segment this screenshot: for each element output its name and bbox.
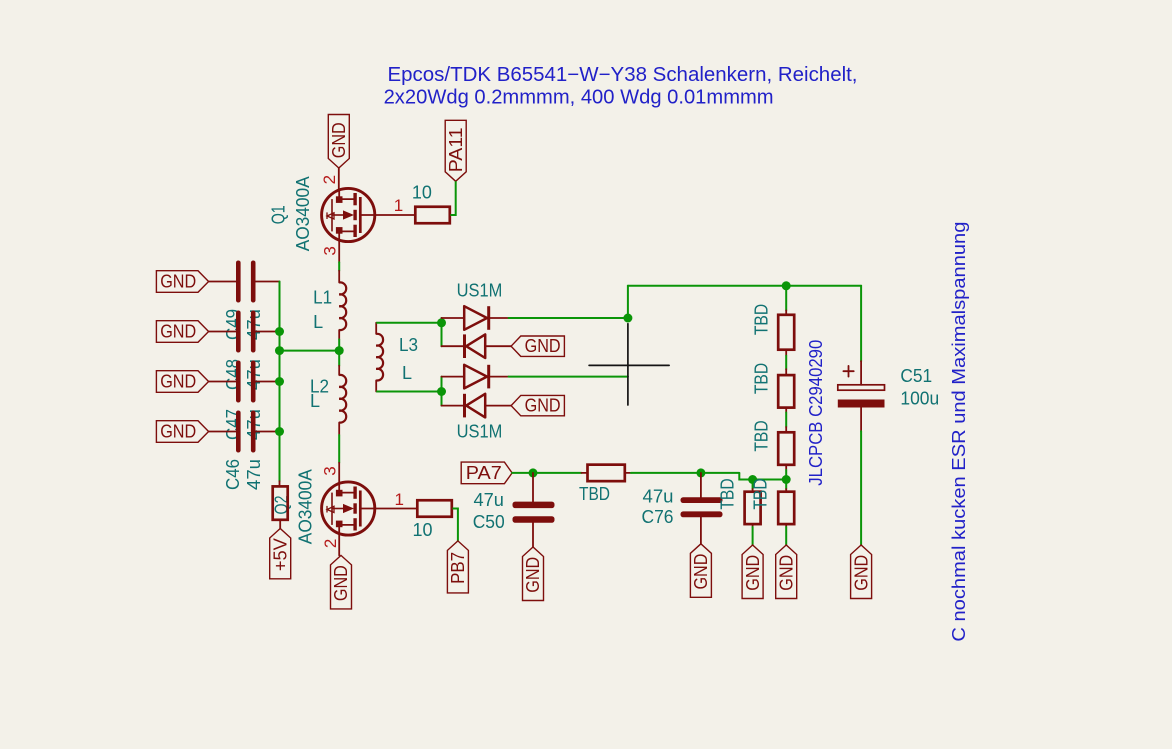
pin bottom of C76 to GND <box>700 517 702 544</box>
wire capacitor bus vertical <box>279 282 281 482</box>
pin 1 of L1 <box>338 271 340 283</box>
pin 2 of L2 <box>338 423 340 436</box>
pin top of C50 <box>532 473 534 502</box>
capacitor C47 47u <box>236 361 241 403</box>
svg-text:L1: L1 <box>313 288 332 308</box>
junction C46 row <box>275 427 284 436</box>
pin top of C76 <box>700 473 702 497</box>
svg-text:TBD: TBD <box>751 478 771 509</box>
pin anode of D1B to GND <box>485 345 511 347</box>
pin 2 of L1 <box>338 330 340 339</box>
pin top of TBD R4 <box>752 489 754 492</box>
power label GND (left 1) <box>156 271 208 293</box>
power label GND (under C50) <box>523 547 544 601</box>
diode D2B US1M <box>466 394 485 418</box>
wire GND to C47 left plate <box>209 381 236 383</box>
resistor TBD (to GND 1) <box>745 492 761 524</box>
hierarchical label PA7 <box>461 462 512 484</box>
power label +5V <box>270 529 291 579</box>
power label GND (under C51) <box>851 545 872 599</box>
wire C51 to GND <box>860 431 862 545</box>
svg-text:47u: 47u <box>474 490 504 510</box>
svg-text:2: 2 <box>321 539 340 548</box>
svg-text:47u: 47u <box>643 487 674 507</box>
wire PA7 to TBD resistor <box>512 472 581 474</box>
pin bottom of C50 to GND <box>532 523 534 547</box>
pin bottom of TBD R5 <box>785 524 787 527</box>
power label GND (above Q1) <box>328 115 349 169</box>
svg-text:GND: GND <box>331 565 351 601</box>
svg-text:C nochmal kucken ESR und Maxim: C nochmal kucken ESR und Maximalspannung <box>949 222 969 642</box>
pin 1 of Q2 (gate) to R <box>360 508 417 510</box>
resistor TBD (chain 2) <box>778 375 794 408</box>
power label GND (under Q2) <box>331 555 352 609</box>
svg-text:TBD: TBD <box>579 484 610 504</box>
pin anode of D1A <box>442 317 465 319</box>
wire node riser <box>627 286 629 318</box>
pin top of chain R2 <box>785 369 787 375</box>
wire GND to C46 left plate <box>209 431 236 433</box>
svg-text:C51: C51 <box>900 366 932 386</box>
pin C49 right plate to bus <box>256 281 280 283</box>
wire between L1 and L2 <box>338 339 340 365</box>
svg-text:L: L <box>313 312 323 332</box>
pin right of TBD resistor <box>625 472 631 474</box>
junction L3 bottom to diodes <box>437 387 446 396</box>
pin 2 of Q2 (source) to GND <box>338 535 340 555</box>
wire Q1 source to L1 <box>338 262 340 271</box>
svg-text:L: L <box>310 391 320 411</box>
junction divider to TBD R4 <box>748 475 757 484</box>
resistor TBD (chain 1) <box>778 315 794 350</box>
transistor Q2 AO3400A (N-MOSFET) <box>322 482 375 535</box>
power label GND (under C76) <box>690 544 711 598</box>
wire top rail <box>628 285 861 287</box>
pin top of TBD R5 <box>785 489 787 492</box>
svg-text:47u: 47u <box>244 459 264 490</box>
svg-text:100u: 100u <box>900 389 939 409</box>
svg-text:GND: GND <box>160 272 196 292</box>
inductor L2 <box>339 375 346 423</box>
junction C76 node <box>696 468 705 477</box>
pin 1 of L2 <box>338 366 340 375</box>
power label GND (left 2) <box>156 321 208 343</box>
capacitor C46 47u <box>236 411 241 453</box>
wire TBD R4 to GND <box>752 527 754 545</box>
svg-text:TBD: TBD <box>751 304 771 335</box>
pin anode of D2A <box>442 376 465 378</box>
svg-text:L: L <box>402 363 412 383</box>
inductor L1 <box>339 282 346 330</box>
pin bottom of chain R2 <box>785 408 787 413</box>
junction L3 top to diodes <box>437 318 446 327</box>
wire bus to L1/L2 junction <box>280 350 340 352</box>
pin left of TBD resistor <box>582 472 588 474</box>
wire D1A cathode to node <box>509 317 628 319</box>
svg-text:GND: GND <box>743 555 763 591</box>
wire D2A cathode to cross <box>509 376 628 378</box>
svg-text:AO3400A: AO3400A <box>293 176 313 251</box>
pin 2 of L3 <box>375 380 377 391</box>
resistor TBD (to GND 2) <box>778 492 794 524</box>
wire chain R2 to R3 <box>785 413 787 428</box>
junction PA7 to C50 <box>529 468 538 477</box>
wire step down to divider node <box>739 473 786 480</box>
wire L3 top elbow <box>376 322 441 324</box>
wire chain R3 to node <box>785 470 787 480</box>
svg-text:GND: GND <box>160 422 196 442</box>
pin bottom of chain R3 <box>785 465 787 470</box>
pin cathode of D1B <box>442 345 465 347</box>
svg-text:1: 1 <box>394 196 403 215</box>
svg-text:3: 3 <box>320 246 339 255</box>
pin anode of D2B to GND <box>485 405 511 407</box>
resistor TBD (PA7 series) <box>588 465 625 482</box>
power label GND (under R5) <box>776 545 797 599</box>
wire GND to C49 left plate <box>209 281 236 283</box>
wire TBD R5 to GND <box>785 527 787 545</box>
capacitor C51 100u (polarized) <box>838 385 885 390</box>
svg-text:3: 3 <box>320 466 339 475</box>
capacitor C76 47u <box>681 497 723 503</box>
diode D1A US1M <box>464 306 487 330</box>
pin C48 right plate to bus <box>256 331 280 333</box>
svg-text:GND: GND <box>691 554 711 590</box>
pin 3 of Q2 (drain) <box>338 463 340 482</box>
junction L1/L2 node <box>335 346 344 355</box>
pin bottom of TBD R4 <box>752 524 754 527</box>
diode D2A US1M <box>464 365 487 389</box>
wire PA11 to gate resistor <box>450 181 455 215</box>
capacitor C49 47u <box>236 261 241 303</box>
wire chain R1 to R2 <box>785 356 787 370</box>
wire anode bus diode pair 2 <box>441 377 443 406</box>
wire / pin 2 of Q1 (drain to GND) <box>338 168 340 189</box>
power label GND (diode pair 2) <box>511 395 564 415</box>
wire top rail to C51 <box>860 286 862 361</box>
diode D1B US1M <box>466 334 485 358</box>
power label GND (under R4) <box>742 545 763 599</box>
svg-text:GND: GND <box>776 555 796 591</box>
junction bus to L wire <box>275 346 284 355</box>
pin 1 of L3 <box>375 323 377 334</box>
pin C46 right plate to bus <box>256 431 280 433</box>
pin cathode of D1A <box>489 317 509 319</box>
junction C48 row <box>275 327 284 336</box>
resistor TBD (chain 3) <box>778 432 794 465</box>
svg-text:1: 1 <box>395 490 404 509</box>
svg-text:GND: GND <box>525 336 561 356</box>
pin top of chain R3 <box>785 427 787 432</box>
svg-text:C46: C46 <box>223 459 243 490</box>
junction top rail to TBD chain <box>782 281 791 290</box>
svg-text:AO3400A: AO3400A <box>295 469 315 544</box>
resistor 10 (Q1 gate) <box>415 207 450 224</box>
svg-text:TBD: TBD <box>751 420 771 451</box>
wire node to TBD R4 <box>752 480 754 490</box>
svg-text:2x20Wdg 0.2mmmm, 400 Wdg 0.01m: 2x20Wdg 0.2mmmm, 400 Wdg 0.01mmmm <box>384 86 774 108</box>
svg-text:10: 10 <box>412 183 432 203</box>
wire GND to C48 left plate <box>209 331 236 333</box>
plus sign of C51 <box>843 370 853 372</box>
svg-text:TBD: TBD <box>751 363 771 394</box>
power label GND (left 3) <box>156 371 208 393</box>
pin positive of C51 <box>860 361 862 385</box>
power label GND (left 4) <box>156 421 208 443</box>
junction divider node <box>782 475 791 484</box>
capacitor C50 47u <box>513 502 555 509</box>
capacitor C48 47u <box>236 311 241 353</box>
svg-text:GND: GND <box>525 396 561 416</box>
wire rail to TBD chain R1 <box>785 286 787 311</box>
wire L2 to Q2 drain <box>338 435 340 463</box>
pin cathode of D2A <box>489 376 509 378</box>
wire anode bus diode pair 1 <box>441 318 443 346</box>
svg-text:PA7: PA7 <box>466 463 502 483</box>
junction rectifier node <box>623 314 632 323</box>
svg-text:PA11: PA11 <box>446 127 466 172</box>
pin cathode of D2B <box>442 405 465 407</box>
svg-text:C76: C76 <box>642 507 674 527</box>
svg-text:GND: GND <box>329 122 349 158</box>
junction C47 row <box>275 377 284 386</box>
svg-text:JLCPCB C2940290: JLCPCB C2940290 <box>806 340 826 486</box>
svg-text:GND: GND <box>160 322 196 342</box>
svg-text:Q1: Q1 <box>269 205 289 224</box>
resistor 10 (Q2 gate) <box>417 500 452 517</box>
wire gate resistor to PB7 <box>452 509 458 541</box>
pin C47 right plate to bus <box>256 381 280 383</box>
pin bottom of chain R1 <box>785 350 787 356</box>
svg-text:2: 2 <box>320 175 339 184</box>
transistor Q1 AO3400A (N-MOSFET) <box>322 188 375 241</box>
pin bottom of series element <box>279 520 281 529</box>
svg-text:Epcos/TDK B65541−W−Y38 Schalen: Epcos/TDK B65541−W−Y38 Schalenkern, Reic… <box>388 64 858 86</box>
svg-text:GND: GND <box>851 555 871 591</box>
svg-text:C50: C50 <box>473 512 505 532</box>
svg-text:L3: L3 <box>399 335 418 355</box>
pin top of chain R1 <box>785 310 787 314</box>
svg-text:US1M: US1M <box>457 281 503 301</box>
svg-text:TBD: TBD <box>718 478 738 509</box>
pin 3 of Q1 (source) <box>338 242 340 263</box>
wire TBD resistor to C76 node <box>631 472 739 474</box>
wire node to TBD R5 <box>785 480 787 490</box>
pin top of series element to +5V <box>279 481 281 486</box>
graphic line vertical (cross) <box>627 324 629 405</box>
hierarchical label PB7 <box>447 541 468 593</box>
svg-text:PB7: PB7 <box>448 552 468 584</box>
power label GND (diode pair 1) <box>511 336 564 356</box>
svg-text:US1M: US1M <box>457 421 503 441</box>
hierarchical label PA11 <box>445 120 466 181</box>
svg-text:GND: GND <box>523 557 543 593</box>
graphic line horizontal (cross) <box>589 364 669 366</box>
inductor L3 <box>376 334 383 381</box>
svg-text:10: 10 <box>413 520 433 540</box>
pin negative of C51 <box>860 408 862 432</box>
svg-text:+5V: +5V <box>270 538 290 571</box>
wire L3 bottom elbow <box>376 391 441 393</box>
pin 1 of Q1 (gate) to R <box>360 214 415 216</box>
svg-text:GND: GND <box>160 372 196 392</box>
series element (box) to +5V <box>273 486 288 519</box>
